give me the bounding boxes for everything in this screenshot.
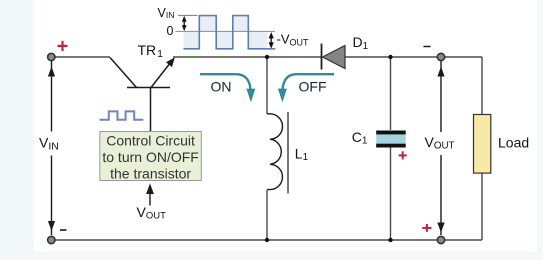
svg-text:to turn ON/OFF: to turn ON/OFF (102, 149, 198, 165)
svg-text:Load: Load (498, 135, 529, 151)
svg-text:0: 0 (167, 24, 174, 38)
svg-text:the transistor: the transistor (110, 165, 191, 181)
svg-text:ON: ON (211, 78, 232, 94)
svg-text:OFF: OFF (299, 78, 327, 94)
svg-text:Control Circuit: Control Circuit (106, 132, 195, 148)
